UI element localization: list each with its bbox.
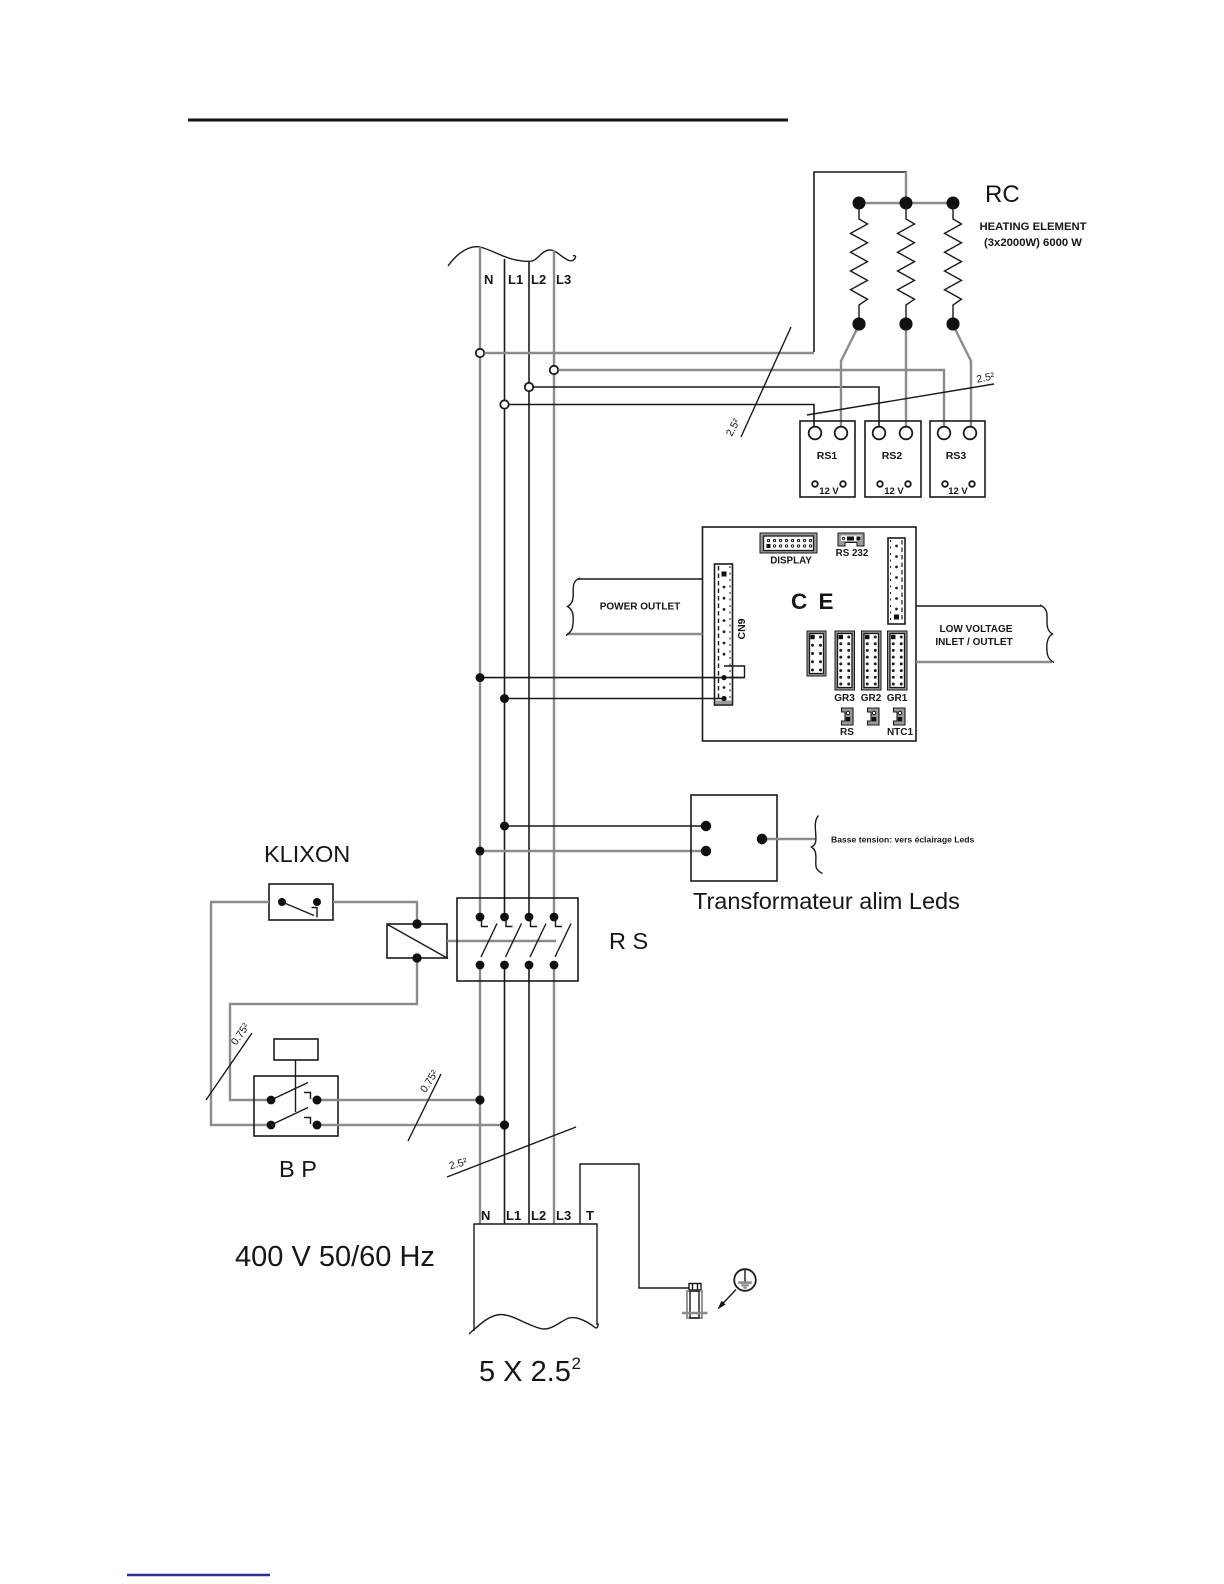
RS1 coil pin left bbox=[812, 481, 818, 487]
relay coil diagonal bbox=[388, 925, 449, 959]
connector RS (small) bbox=[842, 708, 854, 725]
lv header pins bbox=[895, 545, 898, 548]
RS contact 1 hook bbox=[482, 921, 489, 927]
svg-text:Basse tension: vers éclairage: Basse tension: vers éclairage Leds bbox=[831, 835, 975, 845]
svg-text:R S: R S bbox=[609, 928, 648, 954]
node tap on L3 bbox=[550, 366, 558, 374]
KLIXON blade bbox=[282, 902, 314, 916]
bus wire L3 lower bbox=[553, 965, 555, 1224]
RS2 terminal left bbox=[873, 427, 886, 440]
KLIXON contact right bbox=[313, 898, 321, 906]
RS contact 2 blade bbox=[506, 924, 522, 958]
POWER OUTLET brace bbox=[566, 578, 580, 636]
wire RC3 to RS3 (gray) bbox=[954, 327, 971, 427]
junction dot RC1 top bbox=[853, 197, 866, 210]
svg-text:RS 232: RS 232 bbox=[836, 548, 869, 559]
gauge slash 0.75 mid bbox=[408, 1074, 441, 1141]
BP contact 2 right dot bbox=[313, 1121, 322, 1130]
bus wire L1 upper (vertical black) bbox=[504, 259, 506, 917]
transformer output brace bbox=[812, 816, 823, 874]
wire KLIXON right to coil (gray) bbox=[333, 902, 417, 924]
earth pointer head bbox=[718, 1301, 726, 1310]
junction dot RC1 bottom bbox=[853, 318, 866, 331]
RS2 coil pin right bbox=[905, 481, 911, 487]
wire coil return (gray) bbox=[230, 958, 417, 1100]
junction dot on N for CE feed bbox=[476, 673, 485, 682]
KLIXON fixed tick bbox=[312, 908, 318, 918]
earth symbol stem bbox=[744, 1270, 746, 1283]
CN9 top pin square bbox=[722, 572, 727, 577]
wire gauge slash 2.5 (shallow) bbox=[807, 384, 994, 415]
earth stud cap ridge 2 bbox=[697, 1284, 699, 1291]
svg-text:L1: L1 bbox=[508, 272, 523, 287]
earth stud flange (gray) bbox=[682, 1312, 708, 1314]
RS contact 2 top dot bbox=[500, 913, 509, 922]
junction dot RC2 bottom bbox=[900, 318, 913, 331]
wire L2 to RS2 (black) bbox=[534, 387, 880, 427]
connector RS232 bbox=[838, 533, 864, 546]
lv header bottom pin square bbox=[894, 615, 899, 620]
junction dot overpaint coil top bbox=[412, 919, 421, 928]
CN9 pin flag rectangle bbox=[724, 666, 745, 678]
RS232 pin circle bbox=[842, 537, 844, 539]
junction dot overpaint N-transformer bbox=[476, 847, 485, 856]
svg-text:2.5²: 2.5² bbox=[975, 370, 996, 385]
BP contact 2 blade bbox=[271, 1108, 308, 1126]
CE board box bbox=[703, 527, 917, 741]
node tap on N bbox=[476, 349, 484, 357]
BP contact 1 right dot bbox=[313, 1096, 322, 1105]
wire N to CN9 bbox=[480, 677, 745, 679]
wire RC drop (gray) bbox=[905, 172, 907, 203]
wire BP1 to N (gray) bbox=[317, 1099, 480, 1101]
RS2 terminal right bbox=[900, 427, 913, 440]
wire RC riser (black) bbox=[814, 172, 906, 352]
svg-text:C E: C E bbox=[791, 589, 836, 614]
RS232 inner bbox=[841, 536, 861, 542]
bus wire N lower bbox=[479, 965, 481, 1224]
svg-text:L1: L1 bbox=[506, 1208, 521, 1223]
svg-text:N: N bbox=[481, 1208, 490, 1223]
svg-text:12 V: 12 V bbox=[884, 486, 904, 497]
LOW VOLTAGE brace bbox=[1040, 605, 1054, 663]
BP contact 1 hook bbox=[304, 1093, 311, 1100]
svg-text:2.5²: 2.5² bbox=[724, 416, 743, 438]
POWER OUTLET lower line (gray) bbox=[567, 633, 703, 635]
wire L1 to CN9 bbox=[505, 698, 725, 700]
KLIXON box bbox=[269, 884, 333, 920]
heating resistor R3 bbox=[945, 206, 962, 318]
supply cable wave bbox=[469, 1315, 598, 1335]
junction dot on L1 for CE feed bbox=[500, 694, 509, 703]
RS contact 4 top dot bbox=[550, 913, 559, 922]
svg-text:L2: L2 bbox=[531, 272, 546, 287]
junction dot overpaint coil bottom bbox=[412, 953, 421, 962]
lv header right dashed strip bbox=[901, 540, 903, 622]
junction dot overpaint L1-transformer bbox=[500, 822, 509, 831]
connector J-aux (unlabeled) bbox=[807, 631, 826, 676]
svg-text:GR2: GR2 bbox=[861, 693, 882, 704]
CN9 lower pins bbox=[723, 686, 726, 689]
junction dot overpaint L1-CE bbox=[500, 694, 509, 703]
CN9 left dashed strip bbox=[718, 566, 720, 703]
bus wire L2 lower bbox=[528, 965, 530, 1224]
gauge slash 0.75 left bbox=[206, 1033, 252, 1100]
wire N to transformer (gray) bbox=[480, 850, 706, 852]
svg-text:GR1: GR1 bbox=[887, 693, 908, 704]
earth stud body outer (gray) bbox=[687, 1291, 702, 1318]
wire L1 to transformer bbox=[505, 825, 707, 827]
RS contact 1 blade bbox=[481, 924, 497, 958]
svg-text:(3x2000W) 6000 W: (3x2000W) 6000 W bbox=[984, 237, 1082, 249]
BP actuator stem bbox=[295, 1060, 297, 1112]
wire transformer output (gray) bbox=[762, 838, 816, 840]
connector DISPLAY inner bbox=[764, 536, 814, 551]
DISPLAY pins bbox=[767, 539, 769, 541]
bus wire L2 upper (vertical black) bbox=[528, 262, 530, 917]
lv header left chevrons bbox=[890, 540, 892, 622]
svg-text:POWER OUTLET: POWER OUTLET bbox=[600, 602, 681, 613]
svg-text:LOW VOLTAGE: LOW VOLTAGE bbox=[940, 624, 1013, 635]
svg-text:N: N bbox=[484, 272, 493, 287]
RS contact 2 hook bbox=[506, 921, 513, 927]
svg-text:CN9: CN9 bbox=[736, 618, 748, 639]
RS contact 1 top dot bbox=[476, 913, 485, 922]
RS3 coil pin right bbox=[969, 481, 975, 487]
CN9 wire pin dot a bbox=[721, 675, 726, 680]
junction dot RC2 top bbox=[900, 197, 913, 210]
node tap on L1 bbox=[500, 400, 508, 408]
junction dot overpaint RC3 bottom bbox=[947, 318, 960, 331]
svg-text:INLET / OUTLET: INLET / OUTLET bbox=[935, 637, 1012, 648]
coil mechanical link (gray) bbox=[447, 940, 556, 942]
svg-text:400 V 50/60 Hz: 400 V 50/60 Hz bbox=[235, 1241, 435, 1273]
coil terminal bottom dot bbox=[412, 953, 421, 962]
gauge slash 2.5 bottom bbox=[447, 1127, 576, 1177]
svg-text:NTC1: NTC1 bbox=[887, 727, 914, 738]
RS1 coil pin right bbox=[840, 481, 846, 487]
RS contact 4 bottom dot bbox=[550, 961, 559, 970]
POWER OUTLET upper line bbox=[578, 578, 703, 580]
svg-text:12 V: 12 V bbox=[819, 486, 839, 497]
junction dot overpaint N-CE bbox=[476, 673, 485, 682]
junction dot RC3 bottom bbox=[947, 318, 960, 331]
RS contact 3 blade bbox=[530, 924, 546, 958]
footer blue rule bbox=[127, 1574, 270, 1577]
svg-text:KLIXON: KLIXON bbox=[264, 841, 350, 867]
svg-text:2: 2 bbox=[572, 1354, 581, 1373]
svg-text:5 X 2.5: 5 X 2.5 bbox=[479, 1356, 571, 1388]
cable break wave at top of bus bbox=[448, 247, 576, 266]
earth symbol circle bbox=[734, 1269, 756, 1291]
svg-text:RC: RC bbox=[985, 181, 1020, 208]
connector DISPLAY outer bbox=[760, 533, 817, 553]
RS contact 4 hook bbox=[556, 921, 563, 927]
junction dot on N bbox=[475, 1095, 484, 1104]
relay RS1 box bbox=[800, 421, 855, 497]
BP contact 2 left dot bbox=[267, 1121, 276, 1130]
wire N to RC (gray horizontal) bbox=[485, 352, 815, 354]
transformer box bbox=[691, 795, 777, 881]
RS contact 3 bottom dot bbox=[525, 961, 534, 970]
LOW VOLTAGE lower line (gray) bbox=[916, 661, 1052, 663]
supply cable box bbox=[474, 1224, 597, 1331]
LOW VOLTAGE upper line bbox=[916, 605, 1041, 607]
earth symbol bars (gray) bbox=[738, 1281, 751, 1284]
RS contact 1 bottom dot bbox=[476, 961, 485, 970]
connector NTC1 (small) bbox=[894, 708, 906, 725]
node tap on L2 bbox=[525, 383, 533, 391]
svg-text:RS2: RS2 bbox=[882, 450, 903, 462]
RS contact 3 top dot bbox=[525, 913, 534, 922]
bus wire L1 lower bbox=[504, 965, 506, 1224]
svg-text:L3: L3 bbox=[556, 272, 571, 287]
RS1 terminal left bbox=[809, 427, 822, 440]
RC top bus (gray) bbox=[859, 202, 953, 204]
CN9 pins bbox=[723, 586, 726, 589]
svg-text:L2: L2 bbox=[531, 1208, 546, 1223]
junction dot RC3 top bbox=[947, 197, 960, 210]
RS3 terminal right bbox=[964, 427, 977, 440]
bus wire N upper (vertical gray) bbox=[479, 247, 481, 917]
svg-text:DISPLAY: DISPLAY bbox=[770, 556, 812, 567]
earth stud top cap bbox=[689, 1284, 701, 1291]
transformer secondary dot bbox=[757, 834, 767, 844]
CN9 right chevrons bbox=[729, 566, 731, 703]
connector GR1 bbox=[888, 631, 908, 690]
BP actuator button bbox=[274, 1039, 318, 1060]
junction dot overpaint transformer secondary bbox=[757, 834, 767, 844]
heating resistor R1 bbox=[851, 206, 868, 318]
svg-text:B P: B P bbox=[279, 1156, 317, 1182]
contactor RS box bbox=[457, 898, 578, 981]
coil terminal top dot bbox=[412, 919, 421, 928]
junction dot overpaint RC1 bottom bbox=[853, 318, 866, 331]
top rule bbox=[188, 119, 788, 122]
relay coil box bbox=[387, 924, 447, 958]
relay RS2 box bbox=[865, 421, 921, 497]
junction dot overpaint BP2 right bbox=[313, 1121, 322, 1130]
svg-text:Transformateur alim Leds: Transformateur alim Leds bbox=[693, 888, 960, 914]
connector mid (small) bbox=[868, 708, 880, 725]
svg-text:RS3: RS3 bbox=[946, 450, 967, 462]
svg-text:RS: RS bbox=[840, 727, 854, 738]
wire T to earth stud bbox=[580, 1164, 689, 1288]
connector GR3 bbox=[835, 631, 855, 690]
svg-text:T: T bbox=[586, 1208, 594, 1223]
RS contact 2 bottom dot bbox=[500, 961, 509, 970]
wire RC2 to RS2 (gray) bbox=[905, 327, 907, 427]
junction dot L1 to transformer bbox=[500, 822, 509, 831]
RS1 terminal right bbox=[835, 427, 848, 440]
RS2 coil pin left bbox=[877, 481, 883, 487]
RS232 pin blocks bbox=[847, 537, 854, 541]
svg-text:GR3: GR3 bbox=[834, 693, 855, 704]
svg-text:0.75²: 0.75² bbox=[229, 1021, 253, 1048]
wire L3 to RS3 (gray) bbox=[559, 370, 945, 427]
earth pointer line bbox=[720, 1290, 736, 1307]
junction dot overpaint BP1 right bbox=[313, 1096, 322, 1105]
RS contact 3 hook bbox=[531, 921, 538, 927]
connector GR2 bbox=[862, 631, 882, 690]
KLIXON contact left bbox=[278, 898, 286, 906]
wire RC1 to RS1 (gray) bbox=[841, 327, 858, 427]
BP contact 1 blade bbox=[271, 1083, 308, 1101]
RS3 coil pin left bbox=[942, 481, 948, 487]
svg-text:RS1: RS1 bbox=[817, 450, 838, 462]
BP contact 2 hook bbox=[304, 1118, 311, 1125]
connector CN9 body bbox=[715, 564, 733, 705]
wire BP2 to L1 (gray) bbox=[317, 1124, 505, 1126]
BP contact 1 left dot bbox=[267, 1096, 276, 1105]
relay RS3 box bbox=[930, 421, 985, 497]
earth stud cap ridges bbox=[692, 1284, 694, 1291]
svg-text:12 V: 12 V bbox=[948, 486, 968, 497]
bus wire L3 upper (vertical gray) bbox=[553, 250, 555, 917]
CN9 bottom band bbox=[716, 701, 732, 705]
wire KLIXON left (gray) bbox=[211, 902, 271, 1125]
connector low-voltage header body bbox=[888, 538, 905, 624]
wire gauge slash 2.5 (steep) bbox=[741, 327, 791, 437]
BP box bbox=[254, 1076, 338, 1136]
heating resistor R2 bbox=[898, 206, 915, 318]
RS contact 4 blade bbox=[555, 924, 571, 958]
CN9 wire pin dot b bbox=[721, 696, 726, 701]
junction dot on L1 bbox=[500, 1120, 509, 1129]
junction dot overpaint RC2 bottom bbox=[900, 318, 913, 331]
transformer primary dot 1 bbox=[701, 821, 711, 831]
RS3 terminal left bbox=[938, 427, 951, 440]
wire L1 to RS1 (black) bbox=[509, 405, 814, 428]
transformer primary dot 2 bbox=[701, 846, 711, 856]
junction dot N to transformer bbox=[476, 847, 485, 856]
earth stud body inner bbox=[690, 1291, 699, 1318]
svg-text:L3: L3 bbox=[556, 1208, 571, 1223]
svg-text:HEATING ELEMENT: HEATING ELEMENT bbox=[979, 221, 1086, 233]
